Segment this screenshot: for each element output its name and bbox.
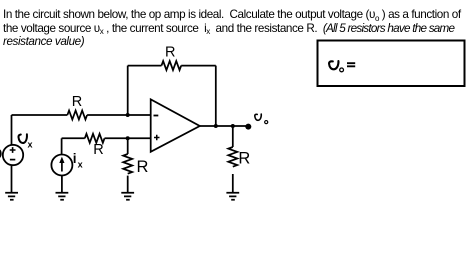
- current source I1 circle: [51, 155, 72, 176]
- wire minus-input horizontal right segment: [87, 114, 151, 116]
- wire feedback left vertical: [127, 66, 129, 115]
- resistor R2 (feedback R): [162, 61, 182, 70]
- resistor R3 (plus input series R): [85, 134, 105, 143]
- label vo output (script upsilon): [255, 114, 261, 120]
- resistor R4 (plus node to ground): [123, 154, 132, 174]
- svg-text:R: R: [137, 158, 149, 176]
- wire feedback top left segment: [128, 65, 162, 67]
- wire current source top: [61, 138, 63, 154]
- resistor R5 (output to ground): [228, 147, 237, 167]
- ground (voltage source): [5, 193, 18, 200]
- artifact blob left edge: [0, 149, 2, 158]
- node junction dot (feedback / minus wire): [126, 113, 130, 117]
- ground (current source): [56, 193, 69, 200]
- wire voltage source top: [11, 115, 13, 145]
- voltage source plus sign: [10, 147, 16, 153]
- ground (R5): [226, 193, 239, 200]
- svg-text:R: R: [238, 149, 250, 167]
- svg-text:R: R: [72, 94, 82, 110]
- voltage source V1 circle: [3, 145, 23, 165]
- svg-text:i: i: [73, 151, 77, 166]
- node junction dot (plus wire / R4): [126, 136, 130, 140]
- wire feedback right vertical: [215, 66, 217, 126]
- node terminal dot output vo: [245, 124, 251, 130]
- label vo = in answer box (script upsilon): [329, 61, 338, 69]
- wire plus-input right segment: [105, 137, 151, 139]
- wire output: [200, 125, 249, 127]
- wire R4 to ground: [127, 176, 129, 193]
- wire plus node down: [127, 138, 129, 154]
- node junction dot (output / R5): [231, 124, 235, 128]
- voltage source minus sign: [10, 159, 15, 161]
- wire minus-input horizontal left segment: [12, 114, 68, 116]
- wire output node down: [232, 126, 234, 147]
- wire feedback top right segment: [181, 65, 216, 67]
- answer box: [318, 41, 465, 87]
- svg-text:R: R: [93, 142, 103, 158]
- wire R5 to ground: [232, 174, 234, 193]
- op-amp plus pin symbol: [154, 135, 160, 141]
- node junction dot (feedback / output): [214, 124, 218, 128]
- current source arrow: [61, 161, 63, 172]
- wire voltage source bottom: [11, 165, 13, 192]
- label vx (script upsilon): [18, 134, 26, 143]
- wire plus-input left segment: [62, 137, 85, 139]
- svg-text:x: x: [28, 139, 33, 149]
- ground (R4): [121, 193, 134, 200]
- resistor R1 (minus input series R): [67, 111, 87, 120]
- svg-text:R: R: [165, 45, 175, 61]
- op-amp minus pin symbol: [154, 115, 159, 117]
- op-amp U1 triangle: [151, 99, 200, 152]
- svg-text:x: x: [78, 160, 83, 170]
- wire current source bottom: [61, 176, 63, 193]
